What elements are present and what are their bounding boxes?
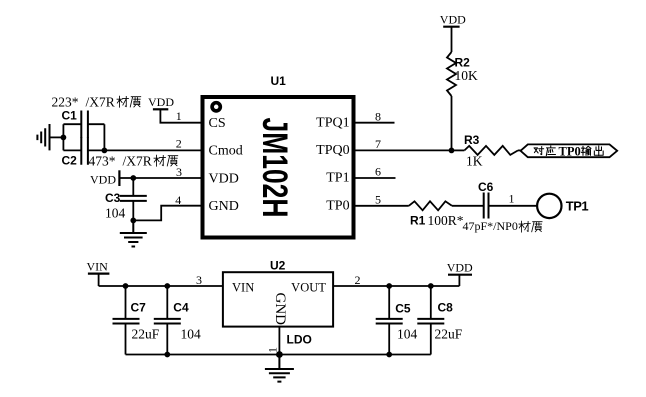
svg-text:C1: C1 [62,109,78,123]
junction U2 GND [276,351,283,358]
resistor R1 [409,201,452,210]
wire C7 top lead [125,286,127,319]
op-amp U1 (IC JM102H) [203,97,354,238]
junction node C3 top [130,175,136,181]
wire VDD to pin 1 [160,109,202,122]
wire C3 to ground node [132,201,134,221]
svg-text:104: 104 [181,327,202,342]
svg-text:2: 2 [355,273,361,287]
test point TP1 circle [537,194,561,218]
svg-text:7: 7 [375,137,381,151]
junction C4 bottom [164,352,170,358]
svg-text:U2: U2 [270,259,286,273]
wire pin 8 stub [356,122,395,124]
wire node to C3 [132,178,134,196]
junction node A [61,135,67,141]
ground GND2 (under C3) [120,220,147,246]
svg-text:VDD: VDD [440,13,466,27]
wire right bus (C1/C2 right) [88,124,104,150]
svg-text:VIN: VIN [232,281,254,295]
svg-text:CS: CS [209,116,226,131]
svg-text:100R*: 100R* [428,213,464,228]
svg-text:/X7R: /X7R [86,95,115,110]
junction C4 top [164,283,170,289]
svg-text:C2: C2 [62,154,78,168]
wire U2 GND pin to rail [278,327,280,355]
capacitor C3 [120,196,147,201]
svg-text:TPQ0: TPQ0 [316,143,349,158]
svg-text:GND: GND [272,293,288,326]
junction C5 bottom [386,352,392,358]
svg-text:VDD: VDD [447,260,473,274]
svg-text:22uF: 22uF [435,327,463,342]
ground GND3 (under U2) [265,355,294,382]
resistor R2 [447,52,456,96]
wire pin 4 to node D [133,206,202,221]
net flag 对应TP0输出 [521,144,618,157]
svg-text:3: 3 [176,165,182,179]
svg-text:1K: 1K [466,154,483,169]
svg-text:C7: C7 [131,301,147,315]
svg-text:4: 4 [175,193,181,207]
svg-text:TP0: TP0 [326,198,349,213]
svg-text:R1: R1 [410,214,426,228]
svg-text:C6: C6 [478,180,494,194]
svg-text:VDD: VDD [90,173,116,187]
wire C8 top lead [430,286,432,319]
svg-text:LDO: LDO [287,333,312,347]
svg-text:JM102H: JM102H [255,118,294,218]
junction C7 top [123,283,129,289]
capacitor C8 [417,319,444,324]
svg-text:R3: R3 [464,133,480,147]
wire VIN rail to U2 pin 3 [99,285,223,287]
wire pin 5 (TP0 net) [356,205,409,207]
svg-text:8: 8 [375,109,381,123]
capacitor C2 [81,137,88,165]
wire ground to node A [50,136,64,138]
capacitor C7 [113,319,140,324]
junction node B (Cmod) [102,148,108,154]
wire VIN to rail [98,274,100,286]
capacitor C5 [376,319,403,324]
junction C5 top [386,283,392,289]
wire pin 7 (TPQ0 net) [356,149,452,151]
resistor R3 [464,146,518,155]
svg-text:TPQ1: TPQ1 [316,115,349,130]
junction node D (C3 bottom) [130,218,136,224]
svg-text:47pF*/NP0: 47pF*/NP0 [463,219,518,233]
capacitor C4 [154,319,181,324]
svg-text:TP0: TP0 [559,145,581,159]
svg-text:GND: GND [209,199,239,214]
svg-text:C4: C4 [173,301,189,315]
svg-text:C5: C5 [395,302,411,316]
wire C6 to TP1 [489,205,537,207]
svg-text:5: 5 [375,192,381,206]
svg-text:223*: 223* [52,95,79,110]
wire left bus (C1/C2 left) [63,124,81,150]
svg-text:U1: U1 [271,74,287,88]
capacitor C1 [81,111,88,139]
wire pin 6 stub [356,177,396,179]
wire junction to R3 [452,149,465,151]
svg-text:104: 104 [397,327,418,342]
junction C8 top [428,283,434,289]
svg-text:/X7R: /X7R [123,154,152,169]
svg-text:2: 2 [176,136,182,150]
svg-text:C8: C8 [438,301,454,315]
wire ground rail (bottom) [126,354,431,356]
svg-text:VIN: VIN [87,260,109,274]
junction node E (TPQ0/R3) [449,148,455,154]
svg-text:22uF: 22uF [132,327,160,342]
wire VDD bar to pin 3 [119,177,202,179]
wire C8 bottom lead [430,324,432,355]
wire VDD to rail [458,275,460,286]
capacitor C6 [484,193,489,219]
svg-text:C3: C3 [105,191,121,205]
svg-text:1: 1 [509,191,515,205]
svg-text:1: 1 [176,109,182,123]
ground GND1 (left earth symbol, rotated) [37,124,49,150]
pin-1 indicator circle [212,103,220,111]
wire C4 bottom lead [166,324,168,355]
svg-text:Cmod: Cmod [209,144,243,159]
wire C5 top lead [388,286,390,319]
wire C7 bottom lead [125,324,127,355]
wire R2 to junction [451,96,453,150]
wire VDD to R2 [451,27,453,52]
svg-text:473*: 473* [89,154,116,169]
svg-text:3: 3 [196,273,202,287]
wire C5 bottom lead [388,324,390,355]
svg-text:VDD: VDD [209,171,239,186]
wire node B to pin 2 [104,149,202,151]
wire U2 VOUT to VDD rail [333,285,459,287]
svg-text:VDD: VDD [148,95,174,109]
svg-text:104: 104 [105,206,126,221]
svg-text:6: 6 [375,165,381,179]
svg-text:TP1: TP1 [326,171,349,186]
svg-text:VOUT: VOUT [291,280,326,294]
wire R3 to flag [518,149,521,151]
wire C4 top lead [166,286,168,319]
regulator U2 (LDO) [223,272,333,326]
wire R1 to C6 [452,205,484,207]
svg-text:10K: 10K [455,68,479,83]
svg-text:TP1: TP1 [566,199,589,214]
